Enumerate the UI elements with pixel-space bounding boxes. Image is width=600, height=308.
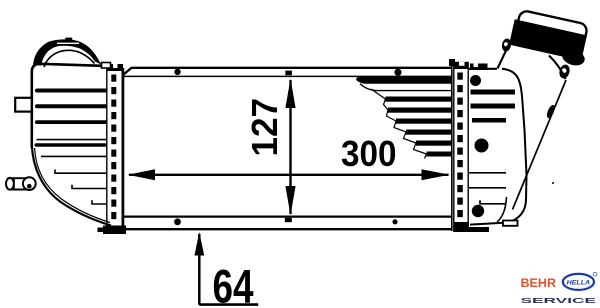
svg-text:300: 300 bbox=[341, 133, 397, 174]
svg-text:127: 127 bbox=[244, 98, 285, 157]
svg-text:SERVICE: SERVICE bbox=[521, 296, 597, 305]
svg-text:HELLA: HELLA bbox=[567, 279, 591, 286]
svg-text:64: 64 bbox=[213, 260, 254, 308]
svg-text:BEHR: BEHR bbox=[521, 276, 557, 290]
